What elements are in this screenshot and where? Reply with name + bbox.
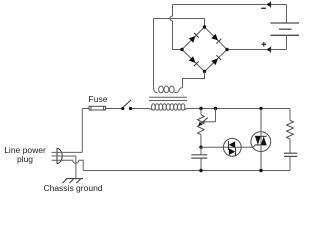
- diode D4 (bottom to right): [211, 58, 218, 65]
- node dot bottom rail left: [199, 169, 202, 172]
- diode D2 (top to right): [211, 34, 218, 41]
- diac D5 bottom diode: [229, 148, 236, 155]
- wire fuse/switch line: [82, 108, 89, 110]
- diac D5 circle: [223, 138, 241, 156]
- label Chassis ground: [40, 184, 106, 193]
- plug prong ground: [52, 155, 76, 157]
- wire bridge bottom to secondary right: [183, 72, 205, 88]
- triac Q1 triangles: [255, 136, 267, 145]
- wire resistor to cap node: [200, 135, 202, 148]
- transformer T1 secondary winding: [154, 87, 158, 93]
- triac Q1 bars: [255, 135, 267, 137]
- resistor R2 right branch: [287, 120, 294, 139]
- switch S1: [121, 107, 124, 110]
- plus sign: [262, 42, 267, 47]
- wire dimmer top rail: [188, 108, 290, 110]
- diac D5 top diode: [229, 141, 236, 148]
- diode D3 (left to bottom): [189, 56, 196, 63]
- node dot top rail left: [199, 107, 202, 110]
- node dot top rail triac: [259, 107, 262, 110]
- transformer T1 core: [149, 96, 187, 98]
- plug prong hot: [52, 151, 83, 153]
- connector J2 positive clip: [266, 47, 270, 51]
- label Line power plug: [1, 146, 49, 164]
- bridge rectifier edges: [182, 27, 227, 72]
- node dot bridge bottom: [203, 70, 206, 73]
- node dot bottom rail triac: [259, 169, 262, 172]
- capacitor C1: [191, 155, 207, 158]
- battery B1: [271, 23, 300, 35]
- node dot bridge top: [203, 25, 206, 28]
- wire battery negative top: [173, 4, 267, 6]
- line power plug P1: [57, 148, 62, 164]
- plug prong neutral with hop over ground wire: [52, 160, 84, 170]
- rheostat R1 zigzag: [198, 115, 205, 135]
- wire hot up to fuse: [81, 109, 83, 153]
- wire ground down: [75, 156, 77, 179]
- fuse F1: [89, 106, 106, 110]
- wire left branch down: [200, 109, 202, 115]
- wire secondary left: [153, 19, 155, 88]
- label Fuse: [86, 95, 110, 104]
- wire from minus line down to bridge left node with crossover hop: [170, 5, 182, 50]
- chassis ground symbol: [62, 179, 83, 184]
- connector J1 negative clip: [266, 2, 270, 6]
- rheostat R1 wiper arrow: [215, 109, 217, 122]
- minus sign: [261, 7, 266, 9]
- wire triac vertical: [260, 109, 262, 132]
- triac Q1 gate: [253, 145, 256, 147]
- wire node to diac: [201, 146, 253, 148]
- wire dimmer bottom rail: [83, 170, 290, 172]
- node dot bridge left: [180, 48, 183, 51]
- wire battery positive: [286, 35, 288, 49]
- node dot bridge right: [225, 48, 228, 51]
- transformer T1 primary winding: [149, 109, 152, 111]
- node dot left branch: [199, 146, 202, 149]
- node dot top rail wiper: [214, 107, 217, 110]
- wire secondary top to bridge top node: [154, 18, 205, 20]
- capacitor C2: [284, 153, 297, 156]
- diode D1 (left to top): [189, 36, 196, 43]
- triac Q1 circle: [251, 132, 271, 152]
